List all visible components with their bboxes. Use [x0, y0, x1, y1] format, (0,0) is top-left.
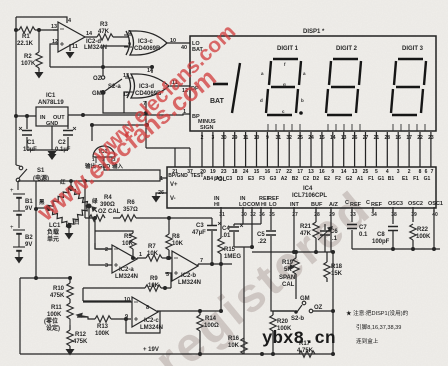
capacitor C5 [266, 231, 276, 235]
wire C5 low [244, 236, 294, 354]
resistor R3 [97, 34, 113, 40]
resistor R8 [166, 234, 172, 250]
display minus sign [213, 83, 228, 86]
wire gates to IC4 pins 21,37 [146, 148, 190, 167]
wire R4 feed [84, 181, 86, 218]
ground at IC4 pin26 [152, 196, 161, 203]
wire C6 [324, 224, 326, 252]
resistor R20 [270, 315, 276, 331]
resistor R1 [16, 27, 39, 33]
battery B2 [13, 230, 25, 257]
wire R9 [83, 273, 172, 301]
ground below B2 [15, 257, 24, 264]
ground below R2 [35, 68, 44, 79]
resistor R9 [145, 285, 161, 291]
wire TO92 gnd to IC4 pin1 [104, 163, 167, 178]
switch S1 [16, 165, 27, 182]
7-segment digit 2 [326, 59, 361, 115]
wire pin27 28 [294, 210, 316, 252]
switch S2-b [295, 301, 313, 313]
bridge LC1 load cell [46, 186, 91, 228]
wire S2-b pivot to R20 [273, 311, 296, 354]
ground at op-amp IC2-d pin 11 [66, 52, 75, 59]
display digit 1 (half digit) [232, 63, 240, 113]
wire op-amp out to R3 [84, 36, 128, 37]
xor gate IC3-c [124, 31, 167, 55]
battery B1 [13, 182, 25, 228]
wire R15 branch [220, 210, 222, 311]
wire IC2-a out [137, 257, 172, 259]
wire bridge top stub [70, 181, 72, 188]
capacitor C8 [388, 227, 398, 231]
wire top-left horizontal [16, 17, 67, 23]
wire bridge left stub [36, 207, 48, 209]
display-to-IC4 pin bus [202, 132, 431, 167]
wire power rail to IC4 pin1 [18, 178, 160, 181]
display labels [183, 29, 424, 131]
op-amp IC2-c [83, 297, 158, 327]
display digit pin ticks [268, 124, 425, 131]
wire IC1 reg [16, 116, 68, 150]
wire R1 to op-amp pin13 [39, 29, 58, 31]
wire S2-b right [313, 252, 333, 354]
wire IC2-c out [157, 310, 221, 312]
capacitor C7 [347, 225, 357, 229]
wire R14 [199, 311, 201, 354]
wire pin5 [165, 272, 172, 274]
wire gate7 down [145, 101, 147, 148]
regulator IC1 TO-92 package [93, 146, 115, 163]
wire pin12 feedback [50, 44, 58, 67]
resistor R11 pot [67, 303, 88, 325]
wire R10 chain [69, 278, 71, 349]
battery plus marks [10, 188, 14, 231]
resistor R13 [95, 316, 111, 322]
wire IC2-c feedback [126, 311, 160, 333]
ground below bridge [65, 226, 74, 240]
wire left rail x36 [35, 181, 37, 278]
wire R5 loop [95, 218, 133, 258]
wire IC2-b out [198, 263, 232, 265]
capacitor C4 [229, 224, 243, 231]
resistor R5 [130, 233, 136, 249]
wire pin31 [220, 210, 222, 218]
wire y252 [252, 251, 333, 253]
wire osc group [352, 210, 440, 249]
wire pins 30-35 group [234, 210, 271, 247]
wire R13 to pin9 [77, 317, 131, 319]
resistor R15 [218, 238, 224, 254]
IC4 ICL7106CPL box [167, 167, 436, 208]
wire R10 box [20, 278, 70, 354]
wire y67 to gate pin14 [50, 67, 152, 73]
resistor R16 [241, 247, 247, 354]
IC4 top pin numbers [172, 169, 433, 175]
wire y125 [92, 125, 147, 141]
wire R19 R18 [296, 252, 327, 299]
wire C3 branch [211, 218, 213, 264]
xor gate IC3-d [125, 74, 169, 98]
resistor R6 [120, 215, 136, 221]
wire reg OUT to display BP [68, 114, 190, 115]
resistor R21 [313, 222, 319, 238]
capacitor C1 [19, 127, 32, 135]
display pin numbers row [201, 135, 434, 141]
ground below IC1 GND [48, 151, 57, 160]
wire bridge right to pin3 [89, 206, 112, 265]
resistor R10 [67, 283, 73, 299]
resistor R18 [324, 262, 330, 278]
regulator IC1 box AN78L19 [36, 107, 68, 126]
wire GM loop [103, 92, 146, 113]
resistor R19 pot [288, 258, 299, 274]
wire pin29 33 [331, 210, 352, 252]
capacitor C3 [207, 222, 221, 230]
op-amp U IC2-d [53, 22, 85, 52]
IC4 segment net labels [168, 173, 430, 182]
wire bottom rail [20, 353, 333, 355]
resistor R4 pot [89, 207, 105, 221]
op-amp IC2-b [172, 251, 198, 281]
resistor R22 [410, 224, 416, 240]
resistor R17 [299, 351, 315, 357]
display DISP1 box [190, 36, 436, 131]
capacitor C6 variable [318, 227, 332, 240]
resistor R2 [36, 30, 42, 71]
op-amp IC2-a [95, 243, 137, 273]
wire pin9 rail [103, 46, 128, 75]
dp dot of digit 1 [299, 111, 303, 115]
wire IC3-d out to display [170, 85, 190, 87]
ground below R12 [66, 349, 75, 356]
wire left rail [15, 17, 17, 165]
switch S2-a [101, 76, 122, 95]
wire analog y218 [85, 217, 212, 219]
note text bottom right [346, 309, 409, 345]
7-segment digit 3 [391, 59, 426, 115]
IC4 bottom labels [214, 196, 443, 208]
resistor R14 [197, 315, 203, 331]
IC4 bottom pin stubs [221, 207, 434, 212]
segment letters digit1 [260, 62, 306, 114]
resistor R12 [67, 330, 73, 346]
wire IC3-c out to display [167, 42, 190, 44]
resistor R7 [146, 255, 162, 261]
wire R8 [168, 218, 170, 258]
IC4 bottom pin numbers [219, 212, 438, 218]
wire IC4 pin26 stub [156, 193, 167, 196]
7-segment digit 1 [266, 59, 301, 115]
capacitor C2 [63, 127, 76, 135]
IC4 labels [158, 176, 443, 218]
